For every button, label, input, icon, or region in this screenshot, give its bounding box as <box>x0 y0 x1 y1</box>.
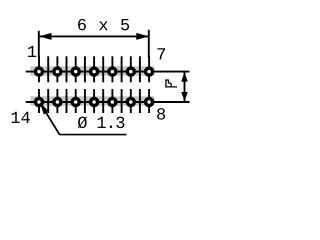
copper strip row 1 (pins 1-7) <box>31 66 155 76</box>
drill diameter leader underline <box>60 134 127 136</box>
drill diameter text "Ø 1.3" <box>78 116 125 128</box>
pitch dimension right arrowhead <box>136 33 149 40</box>
row spacing dimension up arrowhead <box>181 72 188 81</box>
row 2 pin leads (vertical bars) <box>39 89 149 113</box>
pitch dimension line <box>39 35 149 37</box>
pin number 7 <box>158 48 166 59</box>
row spacing dimension down arrowhead <box>181 92 188 101</box>
pad 8 <box>144 97 155 108</box>
copper strip row 2 (pins 14-8) <box>31 96 155 106</box>
row 1 center line / extension to vertical dimension <box>26 71 190 73</box>
pad 2 <box>52 66 63 77</box>
pad 3 <box>70 66 81 77</box>
pad 1 <box>34 66 45 77</box>
pin number 8 <box>157 108 165 120</box>
drill diameter leader arrowhead at pad 14 <box>40 102 49 114</box>
pad 9 <box>126 97 137 108</box>
pad 4 <box>89 66 100 77</box>
row 1 pin leads (vertical bars) <box>39 56 149 82</box>
row 2 center line / extension to vertical dimension <box>26 101 190 103</box>
pad 7 <box>144 66 155 77</box>
pitch dimension text "6 x 5" <box>78 19 129 31</box>
pad 13 <box>52 97 63 108</box>
row spacing dimension line (vertical, right side) <box>184 72 186 102</box>
pitch dimension: right extension line (from pad 7) <box>148 30 150 58</box>
pin number 14 <box>12 112 30 123</box>
row spacing dimension text rotated "5" <box>165 80 177 88</box>
pitch dimension: left extension line (from pad 1) <box>38 31 40 58</box>
pad 14 <box>34 97 45 108</box>
pitch dimension left arrowhead <box>39 33 52 40</box>
pad 12 <box>70 97 81 108</box>
pad 6 <box>126 66 137 77</box>
pad 11 <box>89 97 100 108</box>
pad 5 <box>107 66 118 77</box>
pin number 1 <box>28 46 36 57</box>
drill diameter leader diagonal line <box>40 103 59 134</box>
pad 10 <box>107 97 118 108</box>
